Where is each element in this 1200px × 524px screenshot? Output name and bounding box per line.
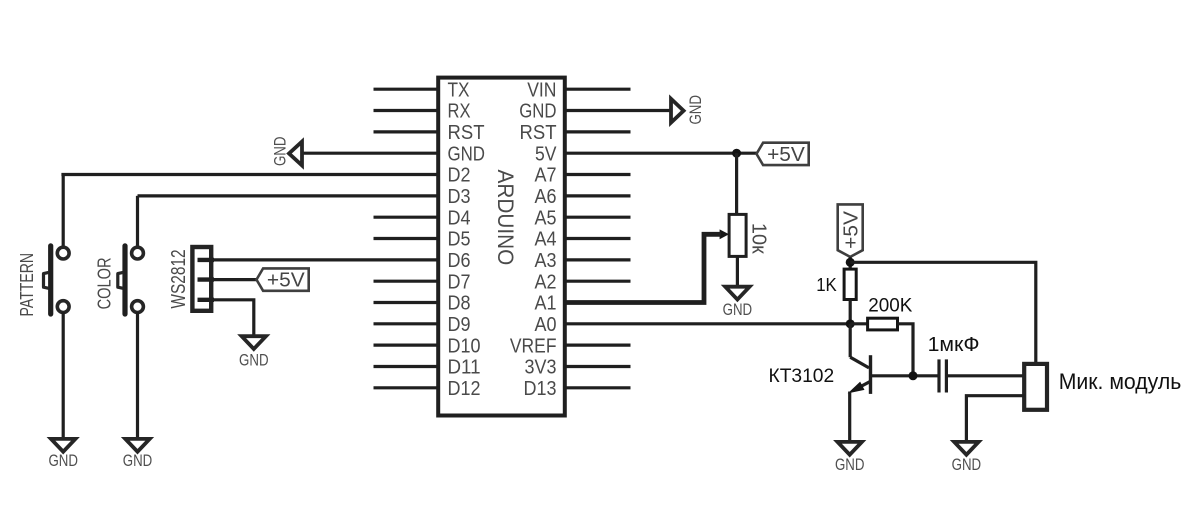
ground symbol PATTERN: [51, 439, 75, 452]
transistor Q1 KT3102: [850, 324, 939, 394]
wire potentiometer to ground: [736, 256, 739, 287]
wire WS2812 pin1 to D6: [212, 258, 440, 261]
wire COLOR to ground: [136, 312, 139, 440]
ground symbol COLOR: [125, 439, 149, 452]
wire D2 to PATTERN button: [61, 173, 440, 176]
wire 1K to base node: [849, 300, 852, 324]
wire D13 stub: [563, 386, 631, 389]
wire WS2812 pin2 to +5V: [212, 278, 257, 281]
svg-text:A0: A0: [535, 314, 557, 336]
wire TX stub: [374, 88, 441, 91]
svg-text:Мик. модуль: Мик. модуль: [1059, 369, 1182, 394]
power flag +5V (amplifier, vertical): [838, 204, 863, 257]
svg-text:5V: 5V: [535, 143, 557, 165]
wire A0 to base node: [563, 322, 850, 325]
svg-text:+5V: +5V: [267, 270, 305, 292]
wire base node to 200K: [850, 322, 867, 325]
junction base node: [846, 319, 855, 328]
wire WS2812 pin3 to ground: [212, 300, 254, 337]
wire A5 stub: [563, 216, 631, 219]
wire D11 stub: [374, 365, 441, 368]
svg-text:COLOR: COLOR: [95, 257, 115, 309]
wire 3V3 stub: [563, 365, 631, 368]
wire VIN stub: [563, 88, 631, 91]
svg-text:GND: GND: [123, 451, 153, 470]
connector J1 pin 1: [198, 258, 215, 262]
potentiometer RV1 body: [729, 214, 746, 256]
svg-text:D6: D6: [448, 250, 471, 272]
wire D10 stub: [374, 344, 441, 347]
wire PATTERN button drop: [62, 175, 65, 249]
ground symbol WS2812: [242, 336, 266, 349]
svg-text:1K: 1K: [816, 275, 837, 295]
svg-text:D9: D9: [448, 314, 471, 336]
wire emitter to ground: [848, 392, 851, 443]
svg-text:PATTERN: PATTERN: [17, 253, 37, 317]
svg-text:D10: D10: [448, 335, 481, 357]
mic module body: [1024, 364, 1047, 410]
ground flag right (GND): [671, 99, 684, 123]
wire D3 to COLOR button: [138, 194, 441, 197]
pushbutton SW PATTERN: [44, 246, 70, 314]
svg-text:+5V: +5V: [767, 144, 805, 166]
resistor 200K body: [868, 318, 898, 330]
wire +5V flag to junction and 1K: [849, 257, 852, 271]
svg-text:A6: A6: [535, 186, 557, 208]
wire A7 stub: [563, 173, 631, 176]
capacitor C1 1мкФ: [939, 359, 946, 392]
svg-text:VIN: VIN: [527, 79, 556, 101]
wire D5 stub: [374, 237, 441, 240]
svg-text:3V3: 3V3: [525, 357, 557, 379]
svg-text:200K: 200K: [868, 296, 912, 317]
svg-text:GND: GND: [723, 300, 753, 319]
svg-text:RST: RST: [448, 122, 485, 144]
svg-text:D7: D7: [448, 271, 471, 293]
wire PATTERN to ground: [62, 312, 65, 440]
ground flag left (GND): [289, 142, 302, 166]
svg-text:RX: RX: [448, 101, 471, 123]
wire D8 stub: [374, 301, 441, 304]
junction collector / capacitor: [909, 371, 918, 380]
wire D7 stub: [374, 280, 441, 283]
junction 5V / potentiometer: [732, 149, 741, 158]
svg-text:КТ3102: КТ3102: [769, 366, 835, 387]
svg-text:D3: D3: [448, 186, 471, 208]
connector J1 pin 2: [198, 277, 215, 281]
svg-text:D2: D2: [448, 165, 471, 187]
wire RST stub: [563, 130, 631, 133]
ground symbol potentiometer: [725, 287, 749, 300]
svg-text:VREF: VREF: [510, 335, 557, 357]
wire A3 stub: [563, 258, 631, 261]
svg-text:GND: GND: [448, 143, 486, 165]
wire A6 stub: [563, 194, 631, 197]
svg-text:D13: D13: [524, 378, 557, 400]
svg-text:A1: A1: [535, 293, 557, 315]
svg-text:D11: D11: [448, 357, 481, 379]
ground symbol emitter: [838, 442, 862, 455]
svg-text:GND: GND: [952, 455, 982, 474]
wire VREF stub: [563, 344, 631, 347]
junction +5V / mic module supply: [846, 258, 855, 267]
svg-text:TX: TX: [448, 79, 470, 101]
svg-text:ARDUINO: ARDUINO: [493, 170, 518, 266]
wire 200K to collector node: [898, 324, 914, 376]
svg-text:GND: GND: [48, 451, 78, 470]
svg-text:WS2812: WS2812: [168, 249, 190, 308]
wire 5V junction down to potentiometer: [735, 153, 738, 215]
svg-text:A4: A4: [535, 229, 557, 251]
wire RX stub: [374, 109, 441, 112]
power flag +5V (WS2812): [257, 268, 309, 290]
power flag +5V (5V pin): [757, 143, 809, 165]
svg-text:GND: GND: [270, 137, 289, 167]
svg-text:RST: RST: [520, 122, 557, 144]
wire D9 stub: [374, 322, 441, 325]
wire D4 stub: [374, 216, 441, 219]
svg-text:A3: A3: [535, 250, 557, 272]
svg-text:1мкФ: 1мкФ: [928, 334, 980, 356]
connector J1 pin 3: [198, 298, 215, 302]
svg-text:A5: A5: [535, 207, 557, 229]
wire +5V junction to mic module (top run): [850, 262, 1036, 364]
wire capacitor to mic module: [948, 374, 1025, 377]
svg-text:GND: GND: [686, 95, 705, 125]
wire A4 stub: [563, 237, 631, 240]
resistor 1K body: [844, 269, 856, 299]
svg-text:D4: D4: [448, 207, 471, 229]
svg-text:D5: D5: [448, 229, 471, 251]
potentiometer RV1 wiper arrow: [720, 229, 729, 239]
svg-text:GND: GND: [835, 455, 865, 474]
svg-text:GND: GND: [239, 351, 269, 370]
connector J1 WS2812 body: [192, 247, 211, 311]
ground symbol mic module: [954, 442, 978, 455]
wire potentiometer wiper (thick): [563, 234, 721, 302]
svg-text:A7: A7: [535, 165, 557, 187]
svg-text:+5V: +5V: [840, 210, 862, 248]
pushbutton SW COLOR: [118, 246, 144, 314]
wire GND pin to right GND flag: [563, 109, 671, 112]
svg-text:D8: D8: [448, 293, 471, 315]
svg-text:D12: D12: [448, 378, 481, 400]
svg-text:A2: A2: [535, 271, 557, 293]
wire 5V pin to +5V flag: [563, 152, 757, 155]
arduino U1 body: [438, 78, 565, 416]
wire RST stub: [374, 130, 441, 133]
wire A2 stub: [563, 280, 631, 283]
svg-text:10к: 10к: [747, 223, 770, 255]
wire D12 stub: [374, 386, 441, 389]
wire COLOR button drop: [136, 196, 139, 248]
wire GND pin to left GND flag: [303, 152, 440, 155]
wire mic module to ground: [966, 396, 1025, 443]
svg-text:GND: GND: [519, 101, 556, 123]
